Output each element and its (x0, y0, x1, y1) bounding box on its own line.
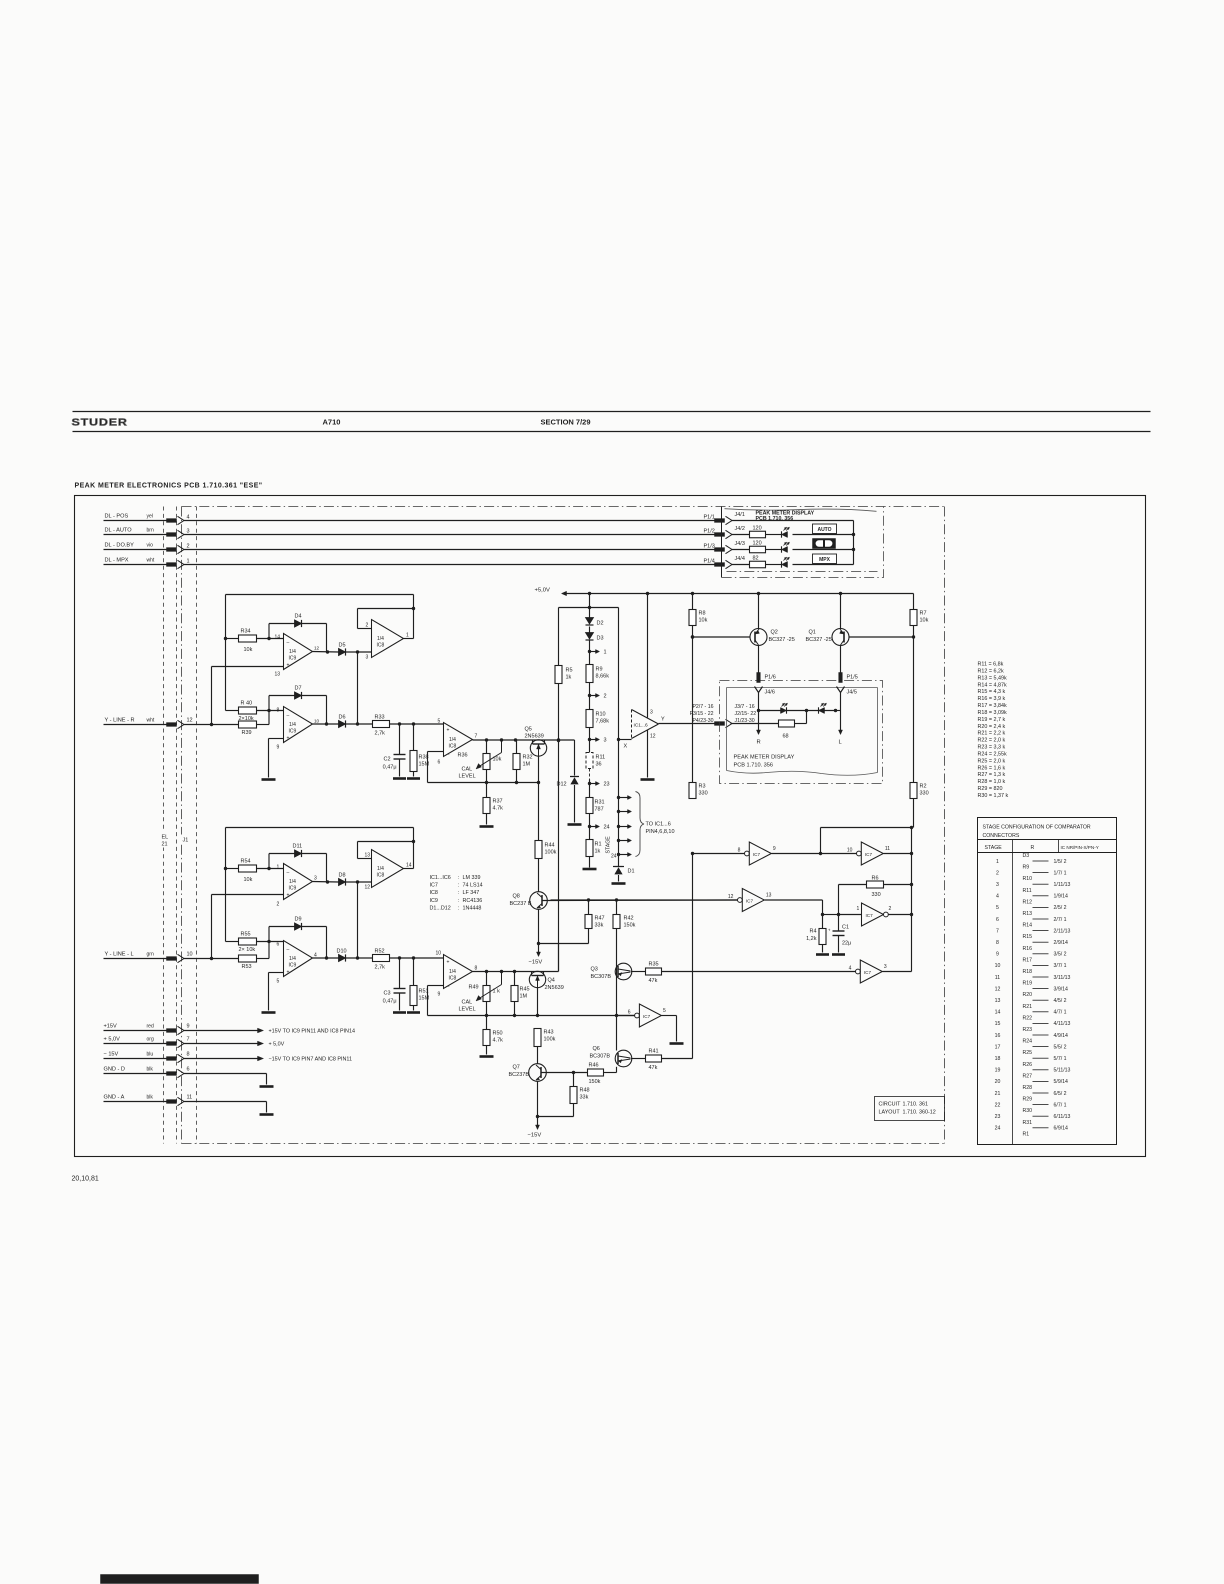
resistor R1 (586, 840, 593, 857)
svg-text:DL - MPX: DL - MPX (105, 558, 129, 564)
svg-text:2,7k: 2,7k (375, 731, 386, 737)
svg-text:21: 21 (162, 842, 168, 848)
wire (795, 723, 807, 725)
svg-text:LM 339: LM 339 (463, 875, 481, 881)
svg-text:11: 11 (187, 1095, 193, 1101)
svg-text:red: red (147, 1024, 154, 1030)
svg-text:R 40: R 40 (241, 701, 253, 707)
svg-text::: : (458, 898, 460, 904)
tap 24 (588, 825, 591, 828)
svg-text:1M: 1M (520, 994, 528, 1000)
svg-text:BC327 -25: BC327 -25 (769, 637, 795, 643)
svg-text:1k: 1k (566, 675, 572, 681)
ground comparator (641, 778, 655, 781)
diode D9 feedback (268, 927, 270, 942)
wire to IC9c + input (211, 895, 213, 959)
transistor Q8 BC237B (530, 892, 548, 910)
svg-text:IC7: IC7 (430, 883, 438, 889)
svg-text:− 15V: − 15V (104, 1052, 119, 1058)
wire R2 down to flipflop node (913, 799, 915, 828)
svg-text:R10: R10 (596, 712, 606, 718)
comparator IC1...6 (631, 710, 633, 739)
svg-text:3: 3 (366, 655, 369, 661)
svg-text:22: 22 (995, 1102, 1001, 1108)
brace to IC1..6 pins (636, 792, 645, 857)
ground D12 (568, 823, 582, 826)
svg-text:7,68k: 7,68k (596, 719, 610, 725)
svg-text:22μ: 22μ (842, 941, 851, 947)
svg-text:J4/6: J4/6 (765, 690, 775, 696)
svg-text:Q3: Q3 (591, 967, 598, 973)
svg-text:R12 = 6,2k: R12 = 6,2k (978, 668, 1005, 674)
svg-text:Y - LINE - R: Y - LINE - R (105, 718, 135, 724)
resistor R53 (239, 955, 257, 962)
svg-text:6/7/ 1: 6/7/ 1 (1054, 1102, 1067, 1108)
svg-text:10k: 10k (920, 618, 929, 624)
wire R34 to summing (257, 638, 284, 640)
svg-text:IC7: IC7 (746, 899, 754, 904)
diode D5 (339, 648, 346, 655)
svg-text:4/11/13: 4/11/13 (1054, 1021, 1071, 1027)
svg-text:D3: D3 (1023, 853, 1030, 859)
svg-text:IC8: IC8 (449, 976, 457, 982)
wire rectifier tie R (357, 652, 359, 725)
svg-text:120: 120 (753, 541, 762, 547)
svg-text:D8: D8 (339, 873, 346, 879)
junction summing R2nd (267, 709, 270, 712)
wire IC7a out (772, 853, 857, 855)
Dolby logo (813, 539, 836, 549)
svg-text:R10: R10 (1023, 876, 1033, 882)
tap 2 (588, 694, 591, 697)
wire IC9a output (313, 651, 339, 654)
junction R42 tap (615, 898, 618, 901)
svg-text:1/7/ 1: 1/7/ 1 (1054, 870, 1067, 876)
svg-text:IC8: IC8 (377, 873, 385, 879)
svg-text:+: + (287, 663, 290, 669)
transistor Q7 BC237B (529, 1064, 547, 1082)
svg-text:R26 = 1,6 k: R26 = 1,6 k (978, 765, 1006, 771)
svg-text:0,47μ: 0,47μ (383, 999, 397, 1005)
svg-text:AUTO: AUTO (817, 527, 831, 533)
resistor R37 (486, 783, 488, 798)
bottom registration bar (101, 1575, 259, 1584)
svg-text:2N5639: 2N5639 (525, 734, 544, 740)
svg-text:2: 2 (604, 694, 607, 700)
ground R4 (816, 953, 829, 956)
junction input node L (210, 957, 213, 960)
svg-text:–: – (287, 947, 290, 953)
svg-text:STUDER: STUDER (72, 417, 128, 428)
svg-text:D2: D2 (597, 621, 604, 627)
junction (910, 826, 913, 829)
wire R52 to buffer (390, 957, 444, 959)
svg-text:IC1...6: IC1...6 (634, 723, 648, 729)
svg-text:36: 36 (596, 762, 602, 768)
svg-text:1/4: 1/4 (449, 737, 456, 743)
svg-text:7: 7 (996, 928, 999, 934)
junction (224, 867, 227, 870)
svg-text:13: 13 (365, 853, 371, 859)
svg-text:TO IC1...6: TO IC1...6 (646, 822, 671, 828)
resistor R43 (534, 1029, 541, 1047)
svg-text:blk: blk (147, 1067, 154, 1073)
cable boundary dashed line EL21 b (176, 507, 178, 1144)
svg-text:R25 = 2,0 k: R25 = 2,0 k (978, 758, 1006, 764)
svg-text:1k: 1k (595, 849, 601, 855)
svg-text:8: 8 (475, 966, 478, 972)
arrow -15V Q7 (537, 1117, 539, 1127)
page header rule bottom (73, 431, 1151, 433)
wire ladder top (589, 594, 591, 618)
svg-text:R23 = 3,3 k: R23 = 3,3 k (978, 745, 1006, 751)
resistor R9 (586, 665, 593, 683)
svg-text:5: 5 (438, 719, 441, 725)
junction pot taps L (485, 970, 488, 973)
wire comparator pin3 to +5V (647, 594, 649, 718)
svg-text:–: – (287, 713, 290, 719)
wire Q3 emitter (631, 971, 646, 973)
svg-text:15: 15 (995, 1021, 1001, 1027)
capacitor C1 22u (838, 915, 840, 932)
inverter IC7d (output bubble) (862, 903, 884, 926)
svg-text:P1/5: P1/5 (847, 675, 858, 681)
svg-text:Q2: Q2 (771, 630, 778, 636)
svg-text:4: 4 (849, 966, 852, 972)
resistor R10 (586, 710, 593, 728)
wire (618, 875, 620, 882)
pin 11 connector J1 (178, 1097, 185, 1105)
wire feedback line L buffer (428, 985, 444, 987)
svg-text:A710: A710 (323, 418, 341, 427)
svg-text:+ 5,0V: + 5,0V (104, 1037, 121, 1043)
svg-text:D1: D1 (628, 869, 635, 875)
wire R5 column corner (558, 944, 560, 972)
wire R39 to summing riser (257, 724, 270, 726)
LED row J4/3 (781, 546, 783, 552)
wire Q2 base (693, 636, 751, 638)
svg-text:5: 5 (996, 905, 999, 911)
wire IC9d output (313, 957, 339, 959)
wire ladder (589, 683, 591, 710)
connector block GND - D (167, 1072, 177, 1076)
resistor R48 (573, 1073, 575, 1087)
resistor R3 (689, 783, 696, 799)
board boundary dash-dot bottom (182, 1143, 945, 1145)
resistor R38 (413, 724, 415, 751)
pin 3 connector J1 (178, 530, 185, 538)
svg-text:1/9/14: 1/9/14 (1054, 894, 1069, 900)
junction rail (588, 592, 591, 595)
svg-text:IC8: IC8 (430, 890, 438, 896)
svg-text:R7: R7 (920, 611, 927, 617)
svg-text:R16 = 3,9 k: R16 = 3,9 k (978, 696, 1006, 702)
svg-text:R18: R18 (1023, 969, 1033, 975)
svg-text:R16: R16 (1023, 946, 1033, 952)
svg-text:+: + (828, 928, 831, 933)
svg-text:org: org (147, 1037, 154, 1043)
svg-text:R55: R55 (241, 932, 251, 938)
svg-text:10: 10 (314, 719, 320, 724)
transistor Q4 2N5639 JFET (529, 971, 545, 987)
junction R47 tap (587, 898, 590, 901)
svg-text:1,2k: 1,2k (806, 936, 817, 942)
svg-text:150k: 150k (589, 1079, 601, 1085)
svg-text:4: 4 (187, 515, 190, 521)
schematic frame (75, 496, 1146, 1157)
svg-text:+: + (287, 736, 290, 742)
svg-text:3: 3 (884, 964, 887, 970)
svg-text:74 LS14: 74 LS14 (463, 883, 483, 889)
junction (412, 607, 415, 610)
svg-text:1N4448: 1N4448 (463, 905, 482, 911)
wire bridge (559, 607, 619, 609)
svg-text:–: – (287, 870, 290, 876)
resistor R2 (910, 783, 917, 799)
svg-text:–: – (287, 640, 290, 646)
svg-text:vio: vio (147, 543, 154, 549)
svg-text:P1/6: P1/6 (765, 675, 776, 681)
svg-text:R19 = 2,7 k: R19 = 2,7 k (978, 717, 1006, 723)
tap 3 (588, 738, 591, 741)
tap 1 (588, 650, 591, 653)
svg-text:9: 9 (996, 952, 999, 958)
wire corner to R4/IC7d (822, 900, 824, 929)
resistor 120 ohm row J4/2 (732, 534, 750, 536)
svg-text:R15: R15 (1023, 934, 1033, 940)
svg-text:J1: J1 (183, 838, 189, 844)
svg-text:3/11/13: 3/11/13 (1054, 975, 1071, 981)
ground ladder (583, 868, 597, 871)
wire R44 to Q8 (538, 859, 540, 892)
junction feedback (485, 781, 488, 784)
ground GND-A (260, 1113, 274, 1116)
resistor R6 (839, 884, 867, 886)
svg-text:yel: yel (147, 514, 153, 520)
diode D7 feedback (268, 696, 270, 711)
svg-text:14: 14 (406, 863, 412, 869)
wire GND-D (184, 1073, 267, 1075)
wire row J4/1 (732, 520, 854, 522)
junction D4 return (326, 650, 329, 653)
resistor R11 (select) (586, 753, 593, 769)
svg-text:PCB 1.710. 356: PCB 1.710. 356 (756, 516, 794, 522)
ground D1 (612, 882, 626, 885)
svg-text:R17 = 3,84k: R17 = 3,84k (978, 703, 1008, 709)
wire R35 to IC7f (662, 971, 856, 973)
svg-text:CAL: CAL (462, 767, 473, 773)
svg-text:4.7k: 4.7k (493, 1038, 504, 1044)
svg-text:D6: D6 (339, 715, 346, 721)
svg-text:6/5/ 2: 6/5/ 2 (1054, 1091, 1067, 1097)
LED left (R) (781, 708, 787, 714)
resistor R50 (486, 1016, 488, 1030)
pin J4/2 (726, 530, 733, 538)
svg-text:10: 10 (436, 951, 442, 957)
resistor 68 (779, 720, 795, 727)
svg-text:R39: R39 (242, 730, 252, 736)
wire comparator X input (619, 739, 632, 741)
svg-text:2N5639: 2N5639 (545, 985, 564, 991)
svg-text:33k: 33k (580, 1095, 589, 1101)
wire feedback top R (226, 594, 414, 596)
svg-text:Q1: Q1 (809, 630, 816, 636)
svg-text:3: 3 (604, 738, 607, 744)
wire IC8a feedback (358, 608, 414, 610)
junction C3 tap (398, 956, 401, 959)
svg-text:3: 3 (187, 529, 190, 535)
svg-text:STAGE: STAGE (606, 836, 612, 854)
transistor Q5 2N5639 JFET (530, 740, 546, 756)
svg-text:R14 = 4,87k: R14 = 4,87k (978, 682, 1008, 688)
wire +15V (184, 1030, 258, 1032)
pin 4 connector J1 (178, 516, 185, 524)
junction D7 return (325, 722, 328, 725)
junction rectifier node R 2 (356, 722, 359, 725)
board boundary dash-dot vertical left (181, 507, 183, 1144)
diode D6 (339, 720, 346, 727)
wire feedback line R buffer (428, 751, 444, 753)
junction node A (819, 852, 822, 855)
svg-text:PIN4,6,8,10: PIN4,6,8,10 (646, 829, 675, 835)
connector block − 15V (167, 1057, 177, 1061)
svg-text:D7: D7 (295, 686, 302, 692)
wire row J4/4 (793, 564, 854, 566)
svg-text:9: 9 (438, 992, 441, 998)
wire (346, 651, 372, 653)
svg-text:1: 1 (277, 865, 280, 871)
connector block DL - MPX (167, 563, 177, 567)
connector J1 dashed line (196, 507, 198, 1144)
svg-text:RC4136: RC4136 (463, 898, 483, 904)
svg-text:24: 24 (604, 825, 610, 831)
svg-text:150k: 150k (624, 923, 636, 929)
diode D1 (613, 866, 624, 868)
transistor Q3 BC307B (615, 963, 632, 980)
inverter IC7f (856, 969, 861, 974)
svg-text:R33: R33 (375, 715, 385, 721)
ground IC9b (262, 778, 276, 781)
svg-text:1: 1 (406, 633, 409, 639)
svg-text:3: 3 (314, 876, 317, 882)
wire Q1 base (849, 636, 914, 638)
svg-text:X: X (624, 744, 628, 750)
svg-text:IC9: IC9 (430, 898, 438, 904)
svg-text:R30: R30 (1023, 1108, 1033, 1114)
svg-text:R48: R48 (580, 1088, 590, 1094)
wire DL - POS to display (184, 520, 717, 522)
svg-text:R19: R19 (1023, 981, 1033, 987)
svg-text:C3: C3 (383, 991, 390, 997)
svg-text:R34: R34 (241, 629, 251, 635)
svg-text:IC1...IC6: IC1...IC6 (430, 875, 451, 881)
wire DL - DO.BY to display (184, 549, 717, 551)
svg-text:1/4: 1/4 (377, 866, 384, 872)
wire (538, 1116, 574, 1118)
resistor R31 (586, 798, 593, 814)
svg-text:17: 17 (995, 1044, 1001, 1050)
wire to IC9a + input (211, 667, 213, 725)
op-amp IC9b (284, 707, 313, 743)
junction at J4/5 column (834, 709, 837, 712)
junction -15V node R (537, 942, 540, 945)
connector block DL - AUTO (167, 533, 177, 537)
svg-text:+15V TO IC9 PIN11 AND IC: +15V TO IC9 PIN11 AND IC8 PIN14 (269, 1029, 355, 1035)
svg-text:1: 1 (187, 559, 190, 565)
wire row J4/2 (793, 534, 854, 536)
svg-text:8: 8 (277, 708, 280, 714)
svg-text:12: 12 (314, 646, 320, 651)
svg-text:Y - LINE - L: Y - LINE - L (105, 952, 134, 958)
wire rectifier tie L (357, 882, 359, 959)
wire R41 up to comparator bus (662, 1058, 693, 1060)
label EL 21 (159, 832, 175, 848)
op-amp IC8d buffer (444, 955, 473, 989)
svg-text:C1: C1 (842, 925, 849, 931)
svg-text:7: 7 (475, 734, 478, 740)
svg-text:20,10,81: 20,10,81 (72, 1176, 99, 1183)
resistor R8 (692, 594, 694, 610)
board boundary dash-dot top (182, 506, 945, 508)
wire R55 row (226, 941, 239, 943)
wire Q8 emitter (538, 909, 540, 943)
wire GND-A (184, 1101, 267, 1103)
svg-text:5/9/14: 5/9/14 (1054, 1079, 1069, 1085)
svg-text:LEVEL: LEVEL (459, 1007, 476, 1013)
junction summing L1st (267, 867, 270, 870)
svg-text:8: 8 (996, 940, 999, 946)
svg-text:1: 1 (857, 906, 860, 912)
svg-text:3/7/ 1: 3/7/ 1 (1054, 963, 1067, 969)
wire R33 to buffer (390, 723, 444, 725)
display common bus vertical (853, 521, 855, 565)
resistor R45 (514, 972, 516, 986)
svg-text:20: 20 (995, 1079, 1001, 1085)
ground C1 (832, 953, 845, 956)
connector block + 5,0V (167, 1042, 177, 1046)
wire R54 to summing (257, 868, 284, 870)
circuit layout reference box (875, 1097, 945, 1121)
junction X input (617, 738, 620, 741)
wire comparator input column X (618, 608, 620, 867)
connector block Y-LINE-L (167, 957, 177, 961)
svg-text:GND - D: GND - D (104, 1067, 125, 1073)
pin 8 connector J1 (178, 1054, 185, 1062)
svg-text:R32: R32 (523, 755, 533, 761)
wire LED row (759, 710, 836, 712)
svg-text:BC327 -25: BC327 -25 (806, 637, 832, 643)
resistor R47 (588, 900, 590, 915)
svg-text:Y: Y (661, 717, 665, 723)
connector block P1/5 (839, 673, 843, 683)
svg-text:8,66k: 8,66k (596, 674, 610, 680)
wire ladder (589, 814, 591, 840)
wire node A to R2 (820, 828, 822, 854)
wire IC7a input (693, 853, 745, 855)
svg-text:C2: C2 (383, 757, 390, 763)
op-amp IC8b follower (372, 850, 404, 888)
junction (852, 533, 855, 536)
resistor R41 (646, 1055, 662, 1062)
diode D10 (339, 954, 346, 961)
svg-text:11: 11 (885, 846, 890, 852)
svg-text:6: 6 (277, 942, 280, 948)
op-amp IC8c buffer (444, 723, 473, 757)
svg-text:L: L (839, 740, 843, 746)
svg-text:3: 3 (650, 710, 653, 716)
wire IC8c output (473, 739, 575, 741)
svg-text:4/5/ 2: 4/5/ 2 (1054, 998, 1067, 1004)
